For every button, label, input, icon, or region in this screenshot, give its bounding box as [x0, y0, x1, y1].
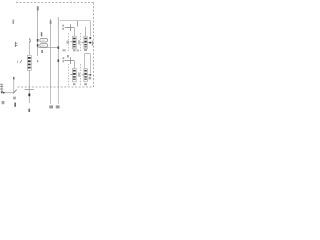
switch stub terminal cap — [13, 77, 15, 80]
wire end speck x37.6 — [37, 60, 38, 62]
label below oval 2 — [41, 50, 43, 53]
switch label — [13, 97, 16, 100]
K4 left pin tick — [82, 74, 84, 76]
junction dot on ground wire — [3, 92, 5, 94]
switch S-B cross tick — [70, 57, 72, 64]
net flag oval 2 — [40, 44, 48, 48]
connector terminal on wire at x37.6 — [37, 6, 39, 10]
label between K3 K4 — [78, 73, 79, 77]
dashed box border x68.7 group B — [68, 64, 70, 86]
ground label below x29.3 — [28, 109, 30, 112]
wire down to K3 coil — [73, 61, 75, 69]
dashed enclosure bottom border — [18, 86, 94, 88]
switch S-A blade — [65, 27, 75, 29]
label below K4 — [84, 83, 87, 85]
wire label left bottom — [2, 101, 5, 104]
label above arch B — [84, 49, 87, 51]
dashed enclosure right border — [93, 3, 95, 88]
switch S-B blade — [65, 60, 75, 62]
label below K3 — [73, 83, 75, 85]
label between K1 K2 — [78, 40, 79, 44]
component K3 coil box — [72, 68, 76, 81]
bus wire vertical x58.3 — [57, 17, 59, 88]
wire vertical x50.2 — [50, 19, 52, 88]
border crossing bar — [25, 89, 34, 91]
output node B — [90, 74, 92, 76]
label right of arrow A — [92, 41, 93, 46]
K2 output wire — [87, 42, 89, 44]
wire color labels bottom center — [49, 105, 53, 108]
wire vertical x29.3 upper — [28, 44, 30, 55]
label bracket above x29 wire — [28, 38, 31, 43]
label below K1 — [73, 49, 75, 51]
switch S-A fixed contact stub — [77, 21, 79, 27]
label below output B — [89, 77, 92, 80]
actuator dash left of F1 — [16, 60, 18, 63]
wire down to K2 coil — [85, 27, 87, 36]
ground label below switch — [14, 103, 16, 107]
battery G1 at left edge — [0, 84, 3, 93]
junction dot on x29.3 — [28, 94, 30, 97]
ground wire y92.7 — [2, 92, 13, 94]
label above switch B — [62, 49, 65, 51]
dashed box border x68.7 group A — [68, 33, 70, 51]
dashed box border x80.5 group A — [80, 33, 82, 51]
supply rail A — [60, 20, 91, 22]
capacitor-like symbol left — [15, 42, 17, 47]
K1 left pin tick — [70, 41, 72, 43]
arch wire to K4 top — [85, 54, 91, 74]
label left of K1 — [67, 41, 69, 44]
label 15 left of switch A — [62, 25, 64, 27]
wire vertical x29.3 lower — [28, 70, 30, 103]
node junction dot upper — [37, 39, 39, 42]
connector terminal on wire at x50.2 — [50, 21, 52, 25]
component K4 coil box — [84, 68, 87, 81]
rail A right leg down — [89, 21, 91, 37]
switch blade slash — [13, 90, 17, 94]
junction dot bus/y60.6 — [58, 59, 60, 62]
pin label 1 — [41, 32, 43, 36]
switch S-A cross tick — [70, 24, 72, 31]
node junction dot lower — [37, 44, 39, 47]
label left of tick B — [67, 55, 69, 58]
component F1 box — [27, 55, 31, 70]
junction dot bus/y47.6 — [58, 46, 60, 49]
label 15 left of switch B — [63, 57, 65, 59]
wire down to K1 coil — [73, 28, 75, 37]
actuator slash left of F1 — [20, 60, 22, 63]
K4 output wire — [87, 74, 90, 76]
switch stub vertical x13.8 — [13, 79, 15, 93]
bus wire continuation below border — [57, 88, 59, 104]
output arrow A — [89, 42, 92, 44]
K2 left pin tick — [82, 42, 84, 44]
dashed enclosure top border — [16, 2, 94, 4]
label 30 (top-left tiny text) — [13, 20, 15, 25]
wire vertical x37.6 — [37, 7, 39, 57]
wire horizontal y47.6 — [38, 47, 58, 49]
dashed box border x80.5 group B — [80, 64, 82, 86]
net flag oval 1 — [40, 39, 48, 43]
component K1 coil box — [72, 36, 76, 49]
component K2 coil box — [84, 36, 87, 49]
terminal blob on leg — [89, 37, 91, 39]
K3 left pin tick — [70, 74, 72, 76]
